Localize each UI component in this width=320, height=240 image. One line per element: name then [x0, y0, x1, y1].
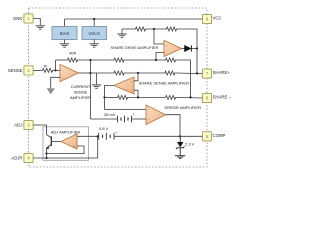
op-amp U2 current sense amplifier	[60, 65, 79, 82]
wire R to node	[55, 69, 56, 71]
wire row R mid	[129, 96, 164, 98]
ground (UVLO)	[90, 44, 99, 47]
wire divider mid	[148, 28, 166, 30]
wire SSA bottom input	[134, 90, 138, 97]
transistor Q1	[46, 135, 61, 150]
node row R SHARE- drop	[189, 96, 191, 98]
wire CSA noninv gnd	[51, 77, 60, 88]
wire row Q left	[91, 72, 113, 74]
wire SENSE to CSA edge	[56, 69, 61, 71]
label COMP	[213, 133, 226, 138]
wire row Q to SHARE+ node	[177, 72, 198, 75]
wire vertical A	[90, 60, 92, 119]
opamp U5 input marks	[74, 137, 76, 149]
pin 1 GND	[24, 14, 33, 23]
opamp U1 input marks	[166, 43, 168, 55]
label ADJR	[11, 155, 22, 160]
op-amp U5 adj amplifier	[61, 134, 77, 149]
wire row Q gnd stem	[96, 73, 98, 84]
node diode cathode	[196, 47, 198, 49]
pin 3 ADJ	[24, 120, 33, 129]
wire divider gnd stem	[121, 29, 123, 34]
svg-text:SENSE: SENSE	[74, 90, 88, 95]
svg-text:−: −	[74, 137, 76, 141]
label SHARE+	[213, 70, 231, 75]
label SENSE	[8, 68, 23, 73]
wire BIAS drop	[64, 19, 66, 27]
svg-text:0.6 V: 0.6 V	[99, 126, 109, 131]
resistor row Q mid	[112, 71, 126, 75]
wire feedback up	[55, 60, 57, 70]
svg-text:−: −	[62, 69, 64, 73]
wire 35mV row left	[91, 118, 118, 120]
svg-text:+: +	[166, 43, 168, 47]
wire UVLO drop	[93, 19, 95, 27]
label ADJ AMPLIFIER	[51, 129, 81, 134]
pin 6 SHARE-	[202, 93, 211, 102]
resistor divider upper	[133, 27, 148, 31]
resistor R	[41, 68, 55, 72]
wire 0.6V to COMP node	[114, 135, 180, 137]
battery 35mV plus	[133, 112, 135, 116]
wire row P to SHARE- drop	[177, 60, 191, 97]
wire row Q mid	[126, 72, 163, 74]
svg-text:−: −	[131, 89, 133, 93]
resistor divider feedback	[165, 27, 178, 31]
opamp U3 input marks	[131, 80, 133, 93]
wire SDA output	[182, 48, 185, 50]
label SHARE-	[213, 95, 232, 100]
node SDA inv tap	[155, 59, 157, 61]
svg-text:SHARE SENSE AMPLIFIER: SHARE SENSE AMPLIFIER	[139, 81, 190, 86]
svg-text:R: R	[44, 63, 47, 68]
block BIAS	[52, 27, 77, 40]
svg-text:+: +	[115, 131, 117, 135]
wire divider row left	[122, 28, 133, 30]
resistor row R right	[164, 95, 177, 99]
resistor 40R	[66, 58, 79, 62]
svg-text:SHARE DRIVE AMPLIFIER: SHARE DRIVE AMPLIFIER	[111, 45, 159, 50]
wire row P mid	[79, 59, 112, 61]
svg-text:40R: 40R	[69, 50, 76, 55]
label ERROR AMPLIFIER	[165, 105, 202, 110]
battery 0.6V plus	[115, 131, 117, 135]
wire ADJR up to battery	[97, 136, 99, 158]
wire VCC rail	[65, 18, 203, 20]
svg-text:ADJR: ADJR	[11, 155, 22, 160]
label R	[44, 63, 47, 68]
wire SSA out to EA	[105, 97, 147, 109]
op-amp U4 error amplifier	[146, 105, 166, 125]
wire BIAS gnd stem	[64, 40, 66, 44]
node emitter feedback	[45, 152, 47, 154]
pin 5 COMP	[202, 132, 211, 141]
resistor row Q right	[163, 71, 176, 75]
node divider tap	[153, 28, 155, 30]
wire row P to SDA tap	[126, 59, 164, 61]
block ADJ AMPLIFIER box	[43, 127, 89, 161]
wire SDA inv input	[156, 53, 164, 61]
op-amp U1 share drive amplifier	[164, 41, 182, 57]
label 2.3 V	[185, 141, 195, 146]
wire diode to SHARE+ node	[191, 48, 197, 50]
wire ADJ pin row	[33, 125, 46, 135]
svg-text:VCC: VCC	[213, 16, 222, 21]
svg-text:+: +	[74, 145, 76, 149]
svg-text:+: +	[62, 76, 64, 80]
resistor row P right	[164, 58, 177, 62]
wire EA output	[166, 115, 181, 137]
svg-text:UVLO: UVLO	[88, 31, 100, 36]
label 40R	[69, 50, 76, 55]
battery 35 mV	[118, 116, 132, 123]
wire CSA output	[79, 72, 91, 74]
node CSA out	[89, 72, 91, 74]
svg-text:ERROR AMPLIFIER: ERROR AMPLIFIER	[165, 105, 202, 110]
svg-text:−: −	[166, 51, 168, 55]
svg-text:CURRENT: CURRENT	[71, 84, 91, 89]
battery 0.6 V	[99, 133, 114, 140]
node battery minus	[97, 135, 99, 137]
ground (BIAS)	[60, 44, 69, 47]
svg-text:+: +	[131, 80, 133, 84]
pin 2 SENSE	[24, 66, 33, 75]
label VCC	[213, 16, 222, 21]
node SHARE+	[196, 72, 198, 74]
ground (GND pin)	[36, 26, 45, 29]
wire COMP to pin	[180, 135, 202, 137]
wire SHARE+ node to pin	[197, 72, 202, 74]
node SSA out	[103, 96, 105, 98]
IC boundary (dashed)	[29, 8, 208, 167]
label SHARE DRIVE AMPLIFIER	[111, 45, 159, 50]
node ADJR junction	[45, 157, 47, 159]
svg-text:ADJ AMPLIFIER: ADJ AMPLIFIER	[51, 129, 81, 134]
diode D1	[185, 45, 192, 51]
wire divider to SHARE+ node	[178, 29, 197, 73]
svg-text:35 mV: 35 mV	[104, 112, 116, 117]
wire ADJR row	[33, 157, 98, 159]
svg-text:COMP: COMP	[213, 133, 226, 138]
wire 40R row	[56, 59, 67, 61]
svg-text:SHARE −: SHARE −	[213, 95, 232, 100]
wire SDA noninv input	[154, 29, 164, 44]
wire row R left	[105, 96, 117, 98]
ground (divider)	[117, 34, 126, 37]
svg-text:AMPLIFIER: AMPLIFIER	[70, 95, 91, 100]
wire GND pin to ground	[33, 19, 40, 26]
ground (CSA analog)	[47, 88, 55, 94]
zener D2 2.3V	[176, 136, 185, 155]
op-amp U3 share sense amplifier	[114, 77, 134, 94]
wire SSA top input	[134, 73, 138, 81]
svg-text:SHARE+: SHARE+	[213, 70, 231, 75]
wire SSA output	[105, 86, 115, 98]
wire 35mV to EA	[132, 118, 147, 120]
pin 8 VCC	[202, 14, 211, 23]
svg-text:+: +	[148, 108, 150, 112]
resistor row P mid	[112, 58, 126, 62]
node COMP junction	[179, 135, 181, 137]
svg-text:−: −	[148, 118, 150, 122]
wire UVLO gnd stem	[93, 40, 95, 44]
label ADJ	[14, 122, 22, 127]
label GND	[13, 16, 23, 21]
svg-text:ADJ: ADJ	[14, 122, 22, 127]
label 35 mV	[104, 112, 116, 117]
node row P CSA tap	[89, 59, 91, 61]
node UVLO tap	[93, 18, 95, 20]
svg-text:GND: GND	[13, 16, 23, 21]
opamp U4 input marks	[148, 108, 150, 122]
svg-text:2.3 V: 2.3 V	[185, 141, 195, 146]
wire row R to pin	[177, 96, 202, 99]
opamp U2 input marks	[62, 69, 64, 80]
label SHARE SENSE AMPLIFIER	[139, 81, 190, 86]
node SSA top tap	[137, 72, 139, 74]
node SENSE summing	[54, 69, 56, 71]
node row R tap	[137, 96, 139, 98]
pin 4 ADJR	[24, 153, 33, 162]
svg-text:SENSE: SENSE	[8, 68, 23, 73]
label CURRENT SENSE AMPLIFIER	[70, 84, 91, 100]
svg-text:+: +	[133, 112, 135, 116]
wire SENSE pin to R	[33, 69, 40, 71]
label 0.6 V	[99, 126, 109, 131]
ground (zener)	[175, 156, 185, 159]
svg-text:BIAS: BIAS	[60, 31, 70, 36]
wire ADJ amp feedback	[47, 146, 85, 154]
wire ADJ amp top input	[77, 135, 99, 137]
resistor row R mid	[116, 95, 129, 99]
wire emitter to ADJR	[46, 148, 48, 158]
pin 7 SHARE+	[202, 69, 211, 78]
ground (row Q)	[92, 85, 101, 88]
block UVLO	[82, 27, 107, 40]
